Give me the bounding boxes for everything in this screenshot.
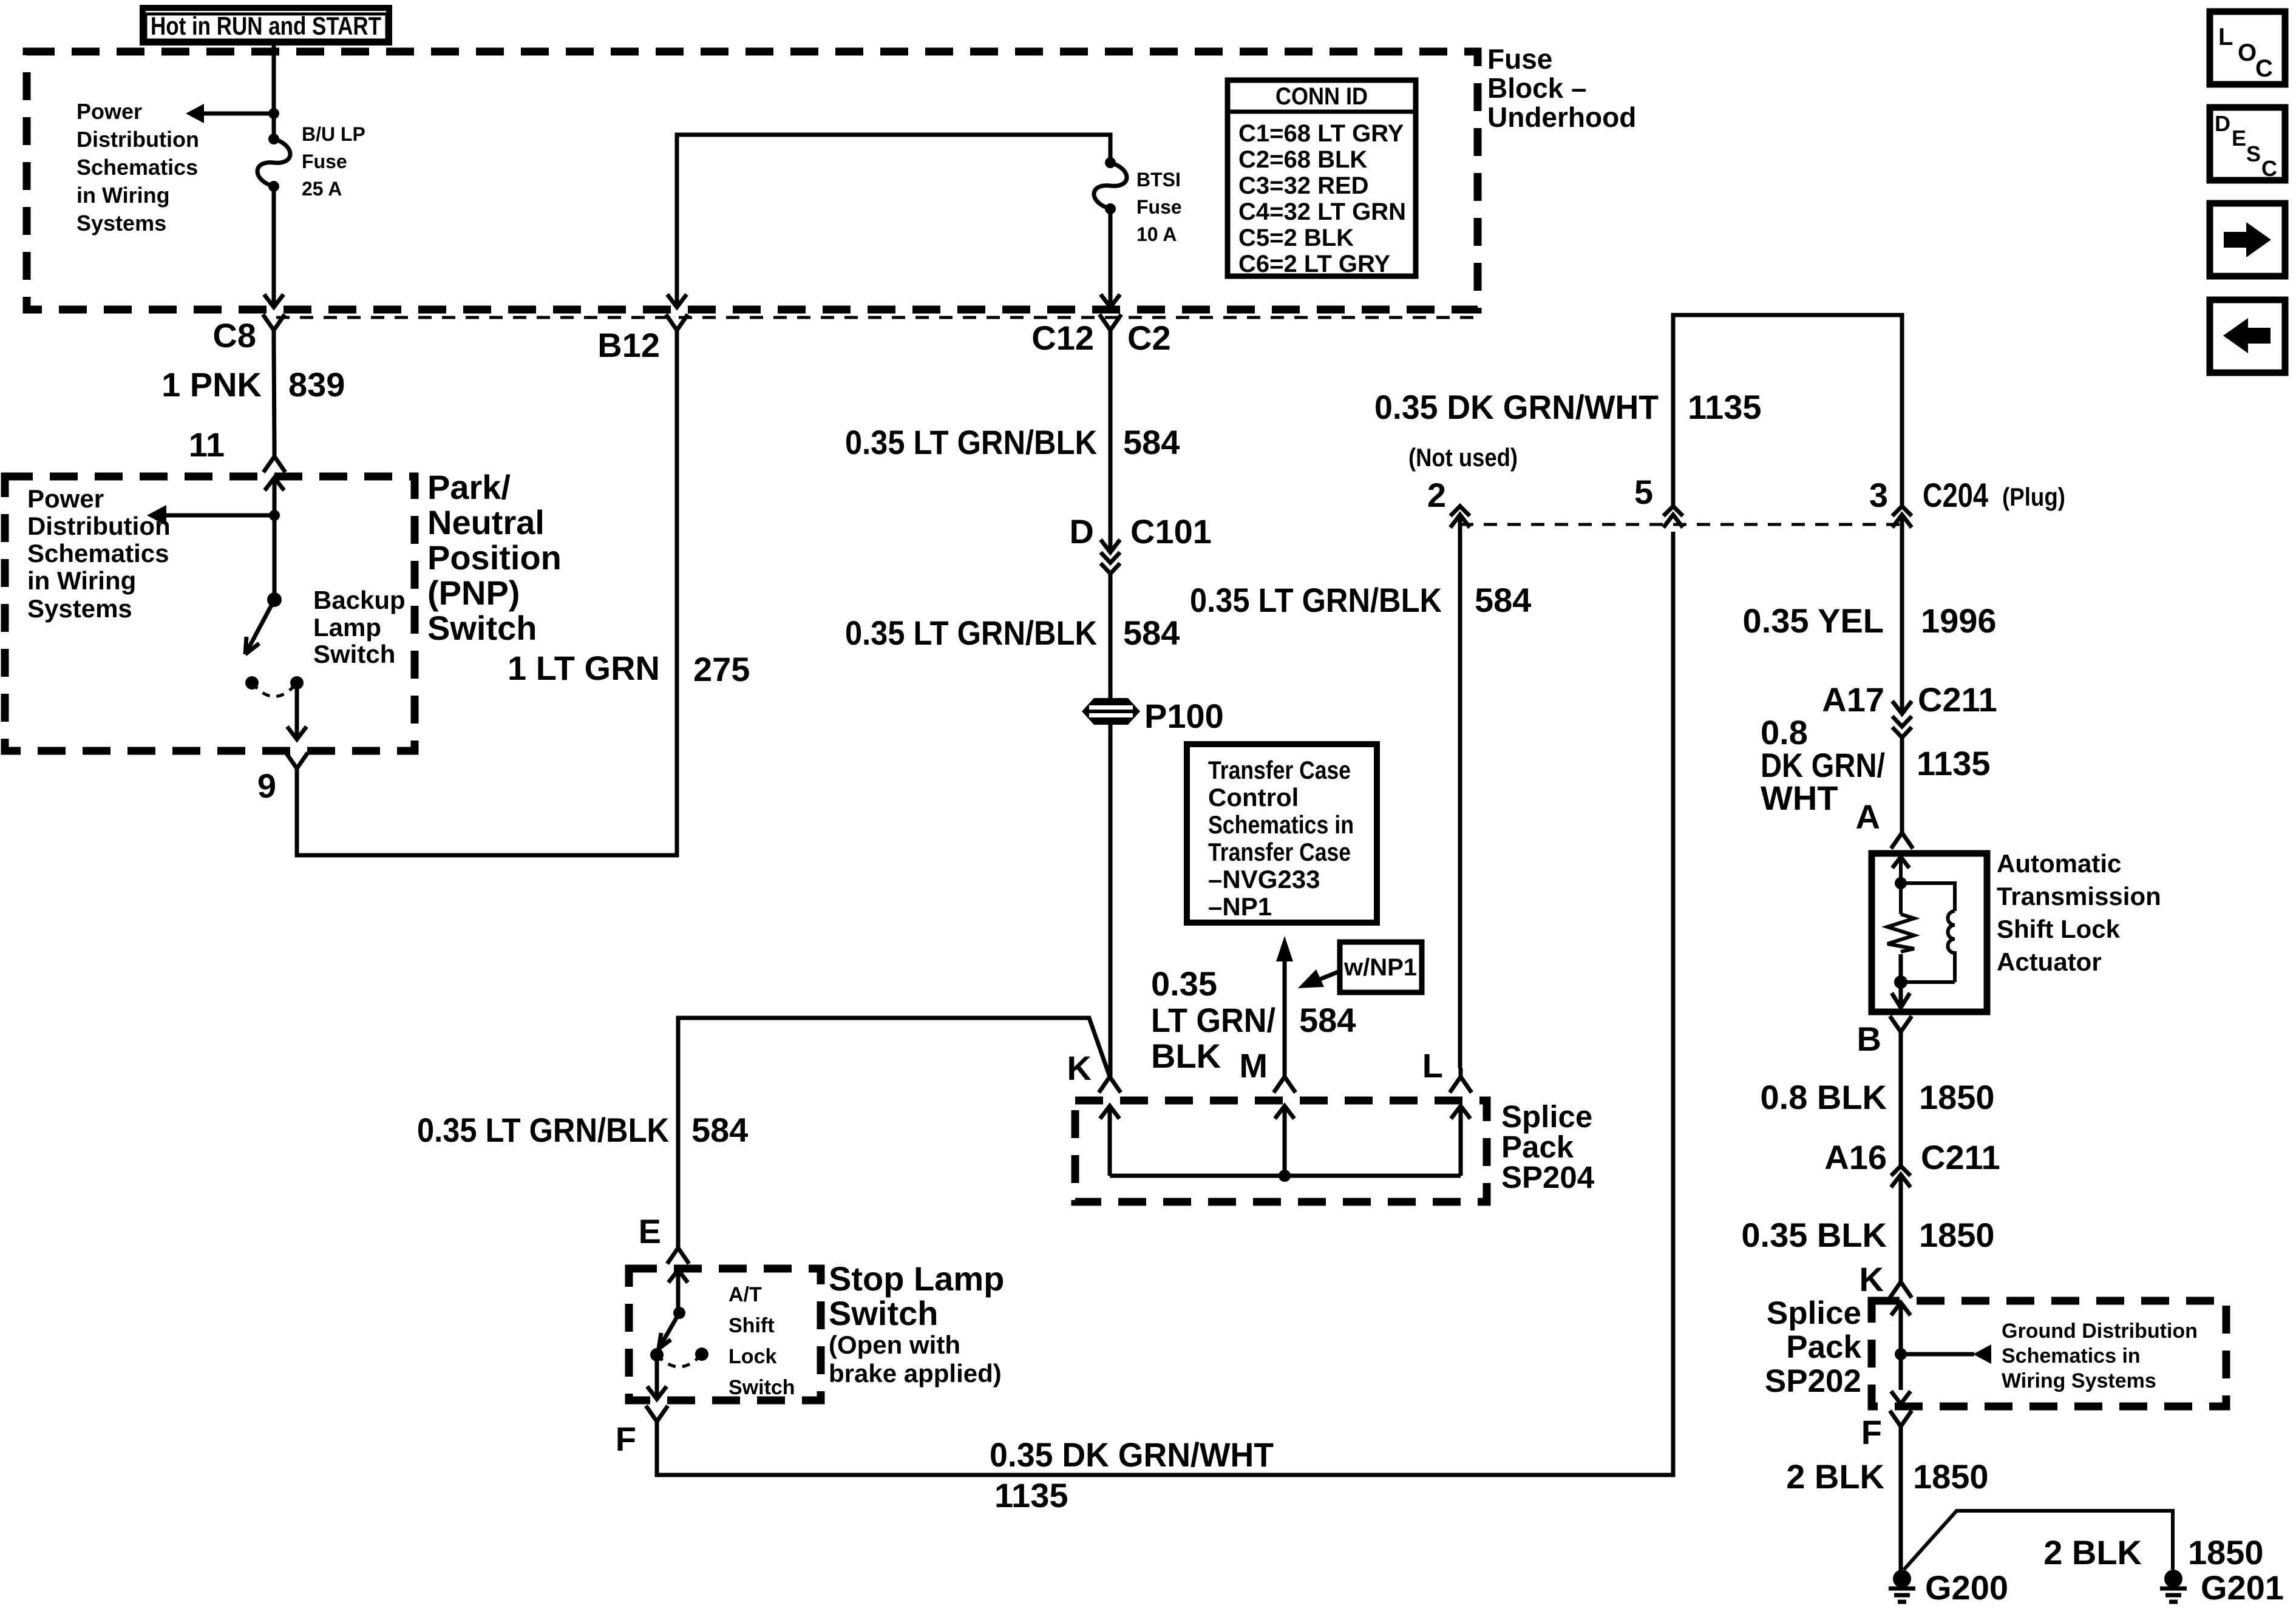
- wire: contact to pin 9 with down arrow: [287, 683, 307, 739]
- splice pack SP204 dashed box: [1075, 1100, 1487, 1202]
- svg-text:(PNP): (PNP): [427, 574, 520, 612]
- wire: C211 to actuator pin A: [1900, 747, 1904, 833]
- actuator internals: output arrow: [1892, 954, 1910, 1008]
- arrow to Power Distribution (top): [186, 104, 274, 123]
- svg-text:Pack: Pack: [1786, 1329, 1861, 1365]
- svg-text:Shift Lock: Shift Lock: [1997, 915, 2121, 943]
- svg-text:275: 275: [693, 650, 750, 688]
- connector D / C101: [1070, 512, 1212, 585]
- svg-text:C1=68 LT GRY: C1=68 LT GRY: [1238, 120, 1404, 147]
- svg-text:1135: 1135: [1917, 744, 1991, 782]
- connector A16 / C211: [1824, 1138, 2000, 1187]
- svg-text:brake applied): brake applied): [829, 1359, 1002, 1388]
- svg-text:0.35 YEL: 0.35 YEL: [1743, 602, 1884, 640]
- connector face dashed line (C8/B12/C12 row): [276, 316, 1478, 319]
- fuse: B/U LP Fuse 25 A: [257, 134, 290, 192]
- svg-text:B/U LP: B/U LP: [302, 123, 365, 145]
- svg-text:A17: A17: [1822, 680, 1884, 719]
- svg-text:0.35 LT GRN/BLK: 0.35 LT GRN/BLK: [845, 614, 1097, 652]
- svg-text:0.8 BLK: 0.8 BLK: [1761, 1078, 1887, 1116]
- icon: DESC: [2210, 107, 2285, 181]
- svg-text:0.35 DK GRN/WHT: 0.35 DK GRN/WHT: [990, 1436, 1274, 1474]
- label: Splice Pack SP202: [1765, 1295, 1862, 1399]
- svg-text:Switch: Switch: [313, 640, 395, 668]
- actuator resistor: [1887, 914, 1914, 952]
- svg-text:O: O: [2238, 39, 2257, 66]
- actuator coil: [1901, 883, 1955, 982]
- svg-text:B: B: [1857, 1020, 1881, 1058]
- svg-text:C5=2 BLK: C5=2 BLK: [1238, 225, 1354, 251]
- svg-text:584: 584: [1299, 1001, 1356, 1039]
- svg-text:Ground Distribution: Ground Distribution: [2002, 1320, 2198, 1343]
- svg-text:CONN ID: CONN ID: [1275, 83, 1368, 110]
- svg-text:11: 11: [189, 425, 225, 464]
- C204 pin 3: [1869, 476, 1912, 527]
- wire label: 1 PNK 839: [161, 365, 345, 404]
- svg-text:584: 584: [1475, 581, 1531, 619]
- note: Ground Distribution Schematics in Wiring Systems: [2002, 1320, 2198, 1392]
- grommet P100: [1082, 697, 1224, 735]
- Automatic Transmission Shift Lock Actuator box: [1872, 853, 1987, 1012]
- connector C8: [212, 314, 285, 354]
- svg-text:Automatic: Automatic: [1997, 849, 2121, 878]
- wire label: 0.35 LT GRN/BLK 584 (upper): [845, 423, 1180, 461]
- svg-text:9: 9: [257, 767, 276, 805]
- connector B12: [597, 314, 688, 364]
- icon: LOC: [2210, 12, 2285, 84]
- svg-text:D: D: [2215, 111, 2230, 136]
- svg-text:K: K: [1067, 1049, 1092, 1087]
- svg-text:C4=32 LT GRN: C4=32 LT GRN: [1238, 198, 1406, 225]
- SP202 pin K: [1860, 1260, 1912, 1298]
- svg-text:839: 839: [288, 365, 345, 404]
- SP202 pin F: [1861, 1411, 1912, 1451]
- fuse block dashed box: [27, 52, 1478, 310]
- svg-text:C211: C211: [1918, 680, 1997, 719]
- fuse block label: Fuse Block - Underhood: [1487, 43, 1636, 133]
- wire: BTSI fuse to C12 with down arrow: [1101, 209, 1120, 307]
- reference box: Transfer Case Control Schematics: [1187, 744, 1377, 923]
- label: C204 (Plug): [1923, 476, 2065, 514]
- svg-text:Splice: Splice: [1501, 1099, 1592, 1134]
- label: Park/Neutral Position (PNP) Switch: [427, 468, 562, 647]
- svg-text:Switch: Switch: [427, 609, 537, 647]
- svg-text:w/NP1: w/NP1: [1343, 954, 1417, 981]
- C204 pin 2: [1427, 476, 1470, 527]
- icon: arrow left: [2210, 300, 2285, 373]
- wire: P100 down to splice pack K: [1109, 724, 1113, 1077]
- svg-text:Schematics in: Schematics in: [1208, 810, 1354, 839]
- svg-text:Systems: Systems: [76, 211, 166, 236]
- svg-text:Schematics: Schematics: [76, 155, 198, 180]
- svg-text:0.35 LT GRN/BLK: 0.35 LT GRN/BLK: [1190, 581, 1442, 619]
- svg-text:Block –: Block –: [1487, 72, 1587, 104]
- svg-text:C12: C12: [1031, 319, 1094, 357]
- svg-text:Fuse: Fuse: [1136, 196, 1182, 218]
- CONN ID table: [1228, 80, 1416, 277]
- svg-text:–NP1: –NP1: [1208, 892, 1272, 921]
- svg-text:1850: 1850: [2188, 1533, 2264, 1571]
- label: Automatic Transmission Shift Lock Actuator: [1997, 849, 2161, 976]
- svg-text:L: L: [2218, 24, 2233, 50]
- svg-text:Control: Control: [1208, 783, 1299, 812]
- svg-text:F: F: [1861, 1413, 1882, 1451]
- svg-text:Hot in RUN and START: Hot in RUN and START: [151, 12, 381, 40]
- svg-text:3: 3: [1869, 476, 1888, 514]
- svg-text:Park/: Park/: [427, 468, 511, 506]
- wire: C101 to P100: [1109, 585, 1113, 699]
- svg-text:Backup: Backup: [313, 586, 406, 614]
- svg-text:1996: 1996: [1921, 602, 1997, 640]
- svg-text:584: 584: [1123, 423, 1180, 461]
- svg-text:C3=32 RED: C3=32 RED: [1238, 172, 1369, 199]
- SP204 pin K: [1067, 1049, 1121, 1176]
- svg-text:Transmission: Transmission: [1997, 882, 2161, 910]
- SP202 internals: [1891, 1303, 1911, 1404]
- label: Backup Lamp Switch: [313, 586, 406, 668]
- svg-text:0.35 LT GRN/BLK: 0.35 LT GRN/BLK: [845, 423, 1097, 461]
- svg-text:Distribution: Distribution: [76, 127, 199, 152]
- svg-text:C6=2 LT GRY: C6=2 LT GRY: [1238, 251, 1390, 277]
- note: Power Distribution Schematics in Wiring Systems (fuse block): [76, 99, 199, 236]
- svg-text:BTSI: BTSI: [1136, 169, 1181, 191]
- svg-text:0.35 BLK: 0.35 BLK: [1741, 1216, 1887, 1254]
- svg-text:C2: C2: [1127, 319, 1171, 357]
- wire label: 0.35 LT GRN/BLK 584 (pin 2 wire): [1190, 581, 1531, 619]
- wire label: 0.35 DK GRN/WHT 1135 (bottom): [990, 1436, 1274, 1514]
- wire label: 0.35 YEL 1996: [1743, 602, 1997, 640]
- label: Stop Lamp Switch (Open with brake applied): [829, 1259, 1004, 1388]
- svg-text:Switch: Switch: [829, 1294, 938, 1332]
- connector A17 / C211: [1822, 680, 1997, 747]
- svg-text:Fuse: Fuse: [302, 151, 347, 172]
- ground G201: [2160, 1568, 2284, 1607]
- svg-text:10 A: 10 A: [1136, 223, 1177, 245]
- svg-text:A: A: [1856, 798, 1880, 836]
- svg-text:Position: Position: [427, 538, 562, 577]
- svg-text:(Not used): (Not used): [1408, 443, 1518, 472]
- note: (Not used): [1408, 443, 1518, 472]
- wire label: 0.35 LT GRN/BLK 584 (E branch): [417, 1111, 748, 1149]
- ground G200: [1889, 1568, 2008, 1607]
- wire: F down to G200: [1899, 1436, 1903, 1572]
- A/T shift lock switch contacts and throw arc: [650, 1347, 708, 1367]
- svg-text:Power: Power: [76, 99, 142, 124]
- svg-text:K: K: [1860, 1260, 1884, 1298]
- A/T shift lock switch contact arm: [659, 1307, 685, 1349]
- svg-text:Transfer Case: Transfer Case: [1208, 838, 1351, 866]
- splice pack SP202 dashed box: [1872, 1301, 2226, 1406]
- fuse: BTSI Fuse 10 A: [1094, 157, 1127, 214]
- wire: branch to G201: [1904, 1511, 2173, 1570]
- svg-text:1 LT GRN: 1 LT GRN: [508, 649, 660, 687]
- svg-text:Systems: Systems: [27, 594, 132, 623]
- pin F of stop lamp switch: [616, 1406, 668, 1458]
- svg-text:WHT: WHT: [1761, 779, 1838, 817]
- svg-text:SP202: SP202: [1765, 1363, 1861, 1399]
- svg-text:in Wiring: in Wiring: [76, 183, 170, 208]
- svg-text:Stop Lamp: Stop Lamp: [829, 1259, 1004, 1298]
- svg-text:Switch: Switch: [729, 1376, 795, 1399]
- svg-text:0.35 LT GRN/BLK: 0.35 LT GRN/BLK: [417, 1111, 669, 1149]
- svg-text:(Plug): (Plug): [2002, 483, 2065, 511]
- svg-text:1135: 1135: [994, 1476, 1068, 1514]
- wire: C8 down to PNP pin 11: [274, 345, 274, 447]
- svg-text:Distribution: Distribution: [27, 512, 171, 540]
- PNP pin 11 terminal arrow (inside box): [265, 478, 284, 515]
- wire label: 2 BLK 1850 (G201): [2043, 1533, 2263, 1571]
- svg-text:2: 2: [1427, 476, 1446, 514]
- wire: pin 3 down to C211 A17: [1892, 515, 1912, 714]
- svg-text:0.35: 0.35: [1151, 964, 1217, 1003]
- actuator pin B: [1857, 1016, 1912, 1058]
- svg-text:F: F: [616, 1420, 636, 1458]
- svg-text:G201: G201: [2201, 1568, 2284, 1607]
- wire: C211 down to SP202 pin K: [1899, 1175, 1903, 1282]
- backup lamp switch contacts and throw arc: [245, 676, 304, 697]
- svg-text:S: S: [2246, 141, 2261, 166]
- svg-text:Pack: Pack: [1501, 1130, 1574, 1164]
- svg-text:Lock: Lock: [729, 1345, 776, 1368]
- label: B/U LP Fuse 25 A: [302, 123, 365, 200]
- svg-text:in Wiring: in Wiring: [27, 566, 136, 595]
- Park/Neutral Position switch dashed box: [5, 476, 415, 751]
- svg-text:–NVG233: –NVG233: [1208, 865, 1320, 893]
- svg-text:G200: G200: [1925, 1568, 2008, 1607]
- actuator internals: input arrow and junction: [1892, 857, 1909, 914]
- label: Splice Pack SP204: [1501, 1099, 1595, 1195]
- wire label: 0.8 BLK 1850: [1761, 1078, 1995, 1116]
- wire: C2 down to C101: [1101, 345, 1120, 552]
- svg-text:1 PNK: 1 PNK: [161, 365, 262, 404]
- svg-text:Schematics in: Schematics in: [2002, 1344, 2141, 1368]
- stop lamp switch terminal arrow (top): [668, 1270, 688, 1313]
- svg-text:2 BLK: 2 BLK: [2043, 1533, 2142, 1571]
- svg-text:E: E: [2232, 126, 2246, 151]
- svg-text:1850: 1850: [1913, 1457, 1989, 1496]
- wire: pin 2 down to SP204 pin L: [1458, 515, 1462, 1068]
- wire: fuse to C8 with down arrow: [264, 186, 284, 307]
- wire: pin 5 up and over to pin 3 (inverted U): [1673, 315, 1902, 506]
- label box: w/NP1: [1340, 942, 1422, 992]
- svg-text:2 BLK: 2 BLK: [1786, 1457, 1884, 1496]
- svg-text:C: C: [2255, 55, 2273, 82]
- svg-text:Wiring Systems: Wiring Systems: [2002, 1369, 2156, 1392]
- wire M up-arrow to transfer case: [1276, 936, 1293, 1068]
- pin E of stop lamp switch: [639, 1212, 689, 1264]
- note: Power Distribution Schematics in Wiring Systems (PNP): [27, 484, 171, 623]
- wire label: 0.35 LT GRN/BLK 584 (lower): [845, 614, 1180, 652]
- stop lamp switch dashed box: [629, 1269, 821, 1400]
- svg-text:A/T: A/T: [729, 1283, 762, 1306]
- svg-text:Actuator: Actuator: [1997, 947, 2102, 976]
- label: A/T Shift Lock Switch: [729, 1283, 795, 1399]
- svg-text:L: L: [1422, 1046, 1443, 1085]
- svg-text:Transfer Case: Transfer Case: [1208, 756, 1351, 784]
- svg-text:D: D: [1070, 512, 1094, 551]
- wire: F along bottom to C204 pin 5 riser: [657, 532, 1673, 1475]
- svg-text:(Open with: (Open with: [829, 1331, 960, 1359]
- svg-text:1135: 1135: [1688, 388, 1762, 426]
- svg-text:Schematics: Schematics: [27, 539, 169, 568]
- arrow to Ground Distribution: [1901, 1344, 1991, 1364]
- connector C12 / C2: [1031, 314, 1170, 357]
- wire: contact down with arrow (to F): [647, 1355, 667, 1399]
- svg-text:C211: C211: [1921, 1138, 2000, 1176]
- svg-text:Underhood: Underhood: [1487, 101, 1636, 133]
- svg-text:Splice: Splice: [1767, 1295, 1861, 1331]
- svg-text:C: C: [2261, 156, 2277, 181]
- svg-text:LT GRN/: LT GRN/: [1151, 1001, 1275, 1039]
- svg-text:25 A: 25 A: [302, 178, 342, 200]
- wire: feed for B12 and BTSI fuse (inverted U): [667, 135, 1110, 307]
- svg-text:Shift: Shift: [729, 1314, 775, 1337]
- svg-text:1850: 1850: [1919, 1078, 1995, 1116]
- arrow from w/NP1 to wire: [1298, 969, 1340, 988]
- SP204 pin M: [1239, 1046, 1296, 1176]
- svg-text:Neutral: Neutral: [427, 503, 545, 541]
- label box: Hot in RUN and START: [143, 8, 389, 42]
- wire label: 0.35 DK GRN/WHT 1135 (top): [1374, 388, 1762, 426]
- icon: arrow right: [2210, 203, 2285, 276]
- SP204 internal bus: [1110, 1170, 1461, 1182]
- svg-text:1850: 1850: [1919, 1216, 1995, 1254]
- svg-text:A16: A16: [1824, 1138, 1887, 1176]
- svg-text:C204: C204: [1923, 476, 1988, 514]
- svg-text:P100: P100: [1144, 697, 1224, 735]
- svg-text:Fuse: Fuse: [1487, 43, 1552, 75]
- svg-text:M: M: [1239, 1046, 1268, 1085]
- wire: Hot box down to B/U LP fuse: [268, 41, 279, 139]
- actuator pin A: [1856, 798, 1913, 849]
- wire label: 1 LT GRN 275: [508, 649, 750, 688]
- pin 9 of PNP switch: [257, 753, 308, 805]
- wire: K junction to E (horizontal + corner): [678, 1018, 1110, 1238]
- C204 pin 5: [1634, 473, 1683, 527]
- svg-text:584: 584: [691, 1111, 748, 1149]
- wire label: 2 BLK 1850: [1786, 1457, 1988, 1496]
- svg-text:BLK: BLK: [1151, 1037, 1221, 1075]
- wire: pin 9 down, right, up to B12: [297, 345, 677, 855]
- wire label: 0.35 BLK 1850: [1741, 1216, 1994, 1254]
- svg-text:B12: B12: [597, 326, 660, 364]
- svg-text:C2=68 BLK: C2=68 BLK: [1238, 146, 1367, 173]
- svg-text:0.35 DK GRN/WHT: 0.35 DK GRN/WHT: [1374, 388, 1659, 426]
- svg-text:C8: C8: [212, 316, 256, 354]
- pin 11 of PNP switch: [189, 425, 285, 472]
- svg-text:C101: C101: [1130, 512, 1212, 551]
- svg-text:584: 584: [1123, 614, 1180, 652]
- svg-text:E: E: [639, 1212, 661, 1250]
- svg-text:Lamp: Lamp: [313, 613, 381, 642]
- connector C204 dashed line: [1460, 523, 1902, 526]
- wire label: 0.35 LT GRN/ BLK 584 (M wire): [1151, 964, 1356, 1075]
- svg-text:5: 5: [1634, 473, 1653, 511]
- SP204 pin L: [1422, 1046, 1472, 1176]
- label: BTSI Fuse 10 A: [1136, 169, 1182, 245]
- arrow to Power Distribution (PNP box): [147, 505, 280, 526]
- wire label: 0.8 DK GRN/ WHT 1135: [1761, 713, 1991, 817]
- wire: B down to C211 A16: [1899, 1043, 1903, 1166]
- backup lamp switch (movable contact): [245, 515, 282, 654]
- svg-text:Power: Power: [27, 484, 104, 513]
- svg-text:SP204: SP204: [1501, 1160, 1595, 1195]
